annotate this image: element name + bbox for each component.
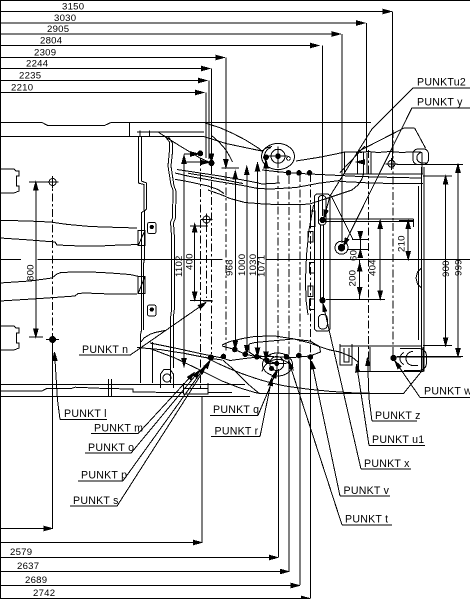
label PUNKT p <box>78 366 206 482</box>
label PUNKT z <box>366 358 421 423</box>
svg-text:2742: 2742 <box>33 588 55 599</box>
extension line from jack bracket to bottom dim <box>201 396 203 542</box>
wheelhouse arc top <box>208 174 364 205</box>
wheelhouse arc bottom left <box>141 331 165 343</box>
rear panel band divider <box>357 152 359 174</box>
extension line for 2804 <box>321 46 323 217</box>
rear panel roof right slope <box>415 128 426 148</box>
extension line for 3150 <box>392 12 394 161</box>
crossmember band line <box>137 131 204 133</box>
rail box bottom <box>249 339 321 358</box>
rail bottom flange line <box>222 346 276 363</box>
dimension 1000 <box>237 167 249 354</box>
bumper line right <box>423 167 425 371</box>
bracket tab 5 <box>309 299 314 309</box>
centreline x393 <box>392 130 394 362</box>
svg-text:60: 60 <box>349 250 360 261</box>
dimension 2689 line <box>0 575 299 588</box>
svg-text:2905: 2905 <box>47 24 69 35</box>
svg-text:2235: 2235 <box>19 71 41 82</box>
point on bottom rail 4 <box>265 358 270 363</box>
svg-text:400: 400 <box>185 253 196 270</box>
point on bottom rail 5 <box>284 355 289 360</box>
svg-text:PUNKT y: PUNKT y <box>417 97 463 109</box>
rear panel band left edge <box>344 152 346 174</box>
rail band lower line bottom <box>137 348 222 361</box>
svg-text:2637: 2637 <box>17 561 39 572</box>
svg-text:800: 800 <box>26 264 37 281</box>
sill joint tick 2 <box>110 379 112 396</box>
label PUNKT q <box>210 370 277 416</box>
extension line for 2689 <box>299 174 301 358</box>
rear panel roof left slope <box>356 128 404 152</box>
label PUNKT y <box>344 97 470 247</box>
label PUNKT w <box>395 361 470 398</box>
point k circle <box>49 179 56 186</box>
fuel filler recess <box>416 268 422 288</box>
rear panel inner line 1 <box>366 153 368 175</box>
sill joint tick 1 <box>107 379 109 396</box>
point on rear panel <box>388 160 395 167</box>
extension line for 3030 <box>365 23 367 152</box>
line from point u1 right <box>325 218 414 220</box>
marker plate lower <box>148 305 157 316</box>
floor pan break line 3 <box>0 272 138 283</box>
extension line for 2244 <box>209 69 213 163</box>
svg-text:200: 200 <box>348 270 359 287</box>
svg-text:999: 999 <box>454 259 465 276</box>
body side bottom edge <box>0 395 250 397</box>
rail points line top <box>262 170 422 178</box>
wheel arch opening curve <box>205 357 374 393</box>
body side inner line top <box>0 136 262 151</box>
rail web line top <box>177 170 280 185</box>
datum centre line left stub <box>0 259 21 261</box>
datum centre line <box>38 259 223 261</box>
dimension 400 <box>185 224 213 300</box>
label PUNKT m <box>91 373 195 435</box>
dimension 2579 line <box>0 547 278 560</box>
rear panel top edge <box>360 152 422 153</box>
extension line for 2579 <box>277 369 279 557</box>
floor pan break line 2 <box>0 238 138 246</box>
spring seat top small hole <box>287 157 291 161</box>
centreline spring seats <box>277 160 279 356</box>
body side outer line bottom <box>0 384 245 386</box>
svg-text:3150: 3150 <box>62 2 84 13</box>
rail line after seat <box>296 152 345 161</box>
rail line into seat <box>262 147 272 152</box>
rail top edge bottom <box>222 336 359 368</box>
centreline q column <box>206 224 208 298</box>
bracket tab 1 <box>311 211 316 227</box>
point l dot <box>50 337 56 343</box>
centreline u2 column <box>211 166 213 354</box>
shock tower column <box>315 194 331 331</box>
svg-text:PUNKT v: PUNKT v <box>344 485 390 497</box>
spring seat bottom outer <box>263 353 293 376</box>
rear panel box <box>364 153 423 175</box>
dimension 1102 <box>174 156 186 367</box>
shackle bracket <box>161 369 174 388</box>
body side inner line bottom <box>0 387 183 392</box>
bracket corner diagonal <box>331 195 353 239</box>
rear panel band bottom <box>345 173 424 175</box>
shock shaft line 1 <box>320 225 322 300</box>
rail lower line to rear <box>340 182 423 184</box>
rear panel band top left <box>345 151 365 153</box>
point on rail left dot <box>198 151 203 156</box>
dimension 200 <box>326 260 385 300</box>
svg-text:2244: 2244 <box>26 59 49 70</box>
centreline point l column <box>52 178 54 336</box>
dimension 2244 line <box>0 59 210 71</box>
crossmember band tick 2 <box>139 131 141 137</box>
svg-text:PUNKT r: PUNKT r <box>215 426 259 438</box>
point on rail 1 <box>286 171 291 176</box>
dimension 2804 line <box>0 36 319 48</box>
rail bottom lower line <box>150 349 260 394</box>
spring seat top mid arc <box>264 148 271 164</box>
spring seat bottom inner <box>270 357 284 371</box>
label PUNKT x <box>323 304 411 471</box>
bracket tab 4 <box>308 286 313 296</box>
marker plate upper <box>148 223 157 234</box>
extension line from point l to bottom dim <box>52 343 54 528</box>
dimension 900 <box>423 176 452 346</box>
spring seat top outer <box>262 144 295 170</box>
label PUNKT n <box>79 303 206 357</box>
rear panel inner line 2 <box>370 153 372 175</box>
svg-text:900: 900 <box>441 260 452 277</box>
heelboard edge line 2 <box>141 137 146 330</box>
centreline x200 <box>199 158 201 390</box>
point u2 weld dot <box>209 160 214 165</box>
rear body edge right inner <box>418 186 420 340</box>
label PUNKT s <box>70 361 210 508</box>
bracket tab 3 <box>309 263 314 273</box>
body band tick <box>128 123 130 137</box>
svg-text:PUNKT m: PUNKT m <box>94 423 143 435</box>
point q circle <box>203 216 210 223</box>
svg-text:PUNKT u1: PUNKT u1 <box>372 434 424 446</box>
page border left <box>0 0 2 599</box>
dimension 2309 line <box>0 48 224 60</box>
label PUNKT v <box>311 361 390 497</box>
dimension 999 <box>397 164 465 356</box>
rail lower flange top <box>175 173 340 189</box>
extension line for 2210 <box>205 93 207 159</box>
centreline 968 column <box>225 172 227 352</box>
svg-text:PUNKT l: PUNKT l <box>64 408 107 420</box>
svg-text:PUNKT s: PUNKT s <box>73 495 119 507</box>
svg-text:PUNKT n: PUNKT n <box>82 344 128 356</box>
rail top flange line <box>205 123 262 151</box>
rear lower corner chamfer <box>340 345 422 347</box>
heelboard edge line 1 <box>138 137 144 383</box>
crossmember band tick 1 <box>148 131 150 137</box>
rear bracket w slot <box>400 353 404 365</box>
weld dot on spring seat rim <box>264 155 269 160</box>
dimension line to jack bracket column <box>0 540 202 544</box>
point cluster dot 1 <box>208 355 213 360</box>
dimension 968 <box>225 171 238 349</box>
svg-text:PUNKT x: PUNKT x <box>364 458 410 470</box>
wheel arch arc bottom <box>223 360 260 394</box>
page border top <box>0 0 470 2</box>
dimension line to point l column <box>0 526 52 530</box>
rear corner cap top <box>413 149 429 165</box>
extension line for 2742 <box>309 174 311 357</box>
sill line right <box>208 392 232 394</box>
label PUNKT o <box>85 370 200 454</box>
rear body edge right <box>421 167 423 371</box>
centreline x368 <box>367 150 369 365</box>
svg-text:PUNKT z: PUNKT z <box>375 410 421 422</box>
dimension 2742 line <box>0 588 310 599</box>
dimension 800 <box>26 182 58 337</box>
floor pan break line 4 <box>0 293 137 301</box>
rail band extra line <box>175 179 224 193</box>
extension line for 2235 <box>208 81 210 160</box>
spring seat top inner circle <box>271 149 285 163</box>
dimension 2637 line <box>0 561 288 574</box>
label PUNKT u1 <box>356 364 425 446</box>
wheelhouse slope diagonal <box>158 132 211 163</box>
svg-text:3030: 3030 <box>54 13 76 24</box>
dimension 2235 line <box>0 71 207 83</box>
point on bottom rail 1 <box>233 347 238 352</box>
svg-text:1000: 1000 <box>237 254 248 276</box>
svg-text:2579: 2579 <box>10 547 32 558</box>
rail band lower line <box>188 173 243 183</box>
arrow at rear panel <box>357 160 365 164</box>
rear panel roof plateau <box>404 127 415 129</box>
svg-text:404: 404 <box>368 259 379 276</box>
point q mirror tick <box>203 300 213 302</box>
dimension 2210 line <box>0 83 204 95</box>
point on rail 2 <box>297 171 302 176</box>
shock tower taper <box>306 205 314 315</box>
bracket tab 2 <box>308 232 313 243</box>
dimension 210 <box>397 221 414 260</box>
shock shaft line 2 <box>322 225 324 300</box>
extension line for 2905 <box>341 34 343 243</box>
body side outer line bottom right <box>260 371 422 393</box>
svg-text:PUNKTu2: PUNKTu2 <box>417 77 466 89</box>
dimension 3030 line <box>0 13 365 25</box>
point x dot <box>320 298 325 303</box>
tick to point u2 dot <box>183 161 209 163</box>
extension line for 2637 <box>288 176 290 357</box>
point w dot <box>391 355 396 360</box>
svg-text:PUNKT t: PUNKT t <box>345 514 388 526</box>
label PUNKT u2 <box>324 77 470 219</box>
svg-text:PUNKT p: PUNKT p <box>81 470 127 482</box>
svg-text:210: 210 <box>397 235 408 252</box>
spring seat bottom outer2 <box>262 359 294 371</box>
svg-text:2804: 2804 <box>40 36 63 47</box>
svg-text:1071: 1071 <box>257 255 268 277</box>
point on bottom rail 7 <box>308 355 313 360</box>
rear corner cap bottom <box>400 349 427 371</box>
sill section cut bottom <box>138 276 145 293</box>
jack bracket <box>184 383 209 394</box>
sill section cut top <box>138 230 145 245</box>
left bracket bottom <box>340 344 352 365</box>
wheelhouse inner edge 1 <box>166 137 174 383</box>
point on bottom rail 2 <box>243 352 248 357</box>
svg-text:2309: 2309 <box>34 48 56 59</box>
floor pan break line 1 <box>0 220 137 228</box>
svg-text:1102: 1102 <box>174 255 185 277</box>
dimension 404 <box>368 221 383 299</box>
left rocker tab bottom <box>0 326 19 350</box>
svg-text:PUNKT o: PUNKT o <box>88 442 134 454</box>
body side outer line top <box>0 123 371 126</box>
quarter panel curve <box>211 135 233 162</box>
line from point w right <box>395 356 462 358</box>
dimension 60 <box>347 232 368 262</box>
rear bracket w inner <box>369 347 371 371</box>
dimension 1071 <box>257 160 268 360</box>
svg-text:2210: 2210 <box>11 83 33 94</box>
point on bottom rail 6 <box>297 353 302 358</box>
point u1 dot top <box>320 217 325 222</box>
extension line for 2309 <box>222 58 240 169</box>
panel crease diagonal <box>340 146 365 173</box>
wheelhouse inner edge 2 <box>169 137 177 368</box>
rail web line bottom <box>150 343 271 361</box>
dimension 1030 <box>248 163 260 356</box>
dimension 3150 line <box>0 2 391 14</box>
label PUNKT t <box>289 361 393 526</box>
svg-text:PUNKT w: PUNKT w <box>424 386 470 398</box>
point on bottom rail 3 <box>254 355 259 360</box>
label PUNKT r <box>211 378 272 438</box>
wheelhouse rear vertical <box>151 342 153 383</box>
dimension 2905 line <box>0 24 340 36</box>
point cluster dot 2 <box>221 354 226 359</box>
rear bracket w box <box>359 347 424 371</box>
label PUNKT l <box>53 352 107 420</box>
point on rail 3 <box>307 171 312 176</box>
left rocker tab top <box>0 169 19 193</box>
svg-text:PUNKT q: PUNKT q <box>213 404 259 416</box>
svg-text:2689: 2689 <box>25 575 47 586</box>
point y dot <box>338 245 344 251</box>
